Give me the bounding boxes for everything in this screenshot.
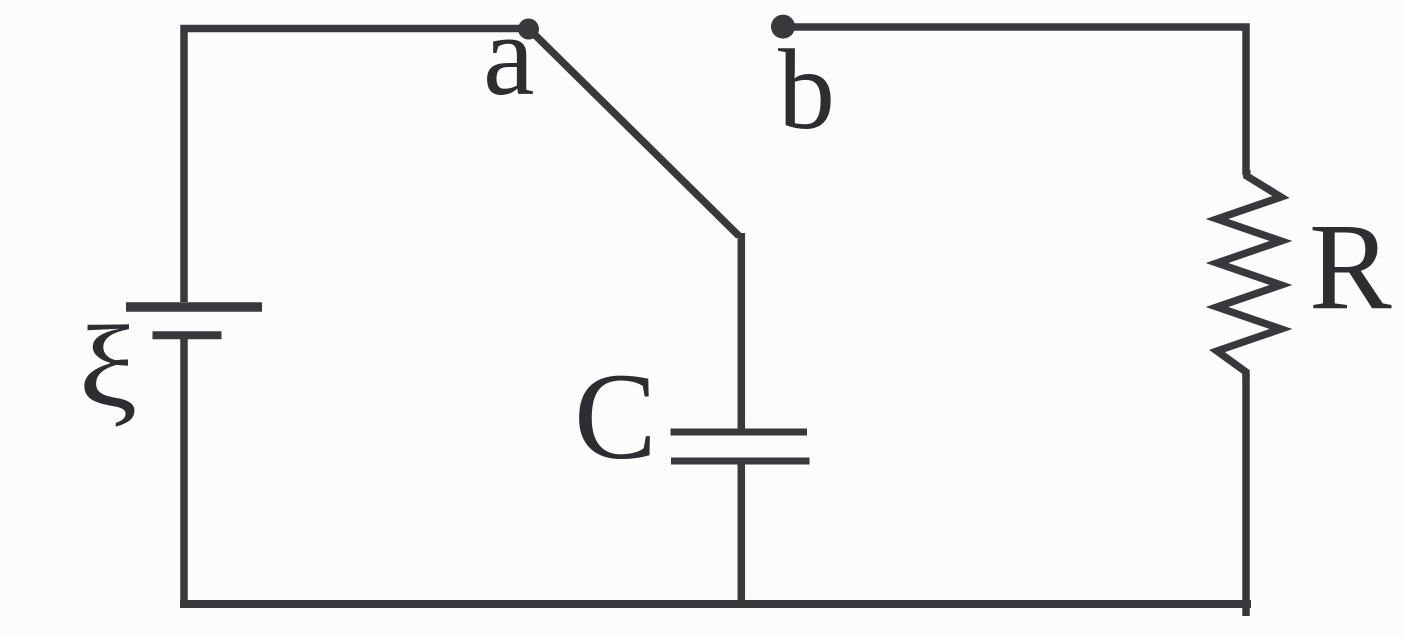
wire right-bottom (resistor to bottom rail)	[1242, 374, 1250, 616]
svg-text:a: a	[483, 0, 535, 120]
node a junction dot	[518, 19, 539, 40]
capacitor plate top	[671, 429, 808, 436]
svg-text:C: C	[574, 348, 657, 485]
wire top-left (battery top to node a)	[184, 29, 528, 303]
wire left-bottom (battery bottom to bottom rail)	[180, 335, 188, 604]
battery plate long (positive)	[126, 302, 262, 311]
switch blade (from node a down to capacitor wire)	[530, 30, 739, 236]
node b junction dot	[771, 15, 795, 39]
battery plate short (negative)	[153, 331, 222, 339]
wire capacitor top lead	[738, 233, 746, 432]
wire bottom rail	[180, 600, 1251, 608]
capacitor plate bottom	[671, 458, 810, 465]
wire top-right (node b to right corner)	[782, 27, 1246, 175]
svg-text:ξ: ξ	[79, 303, 138, 432]
wire capacitor bottom lead	[738, 461, 746, 608]
svg-text:R: R	[1309, 198, 1392, 335]
svg-text:b: b	[778, 26, 835, 153]
resistor R zigzag	[1217, 170, 1281, 377]
